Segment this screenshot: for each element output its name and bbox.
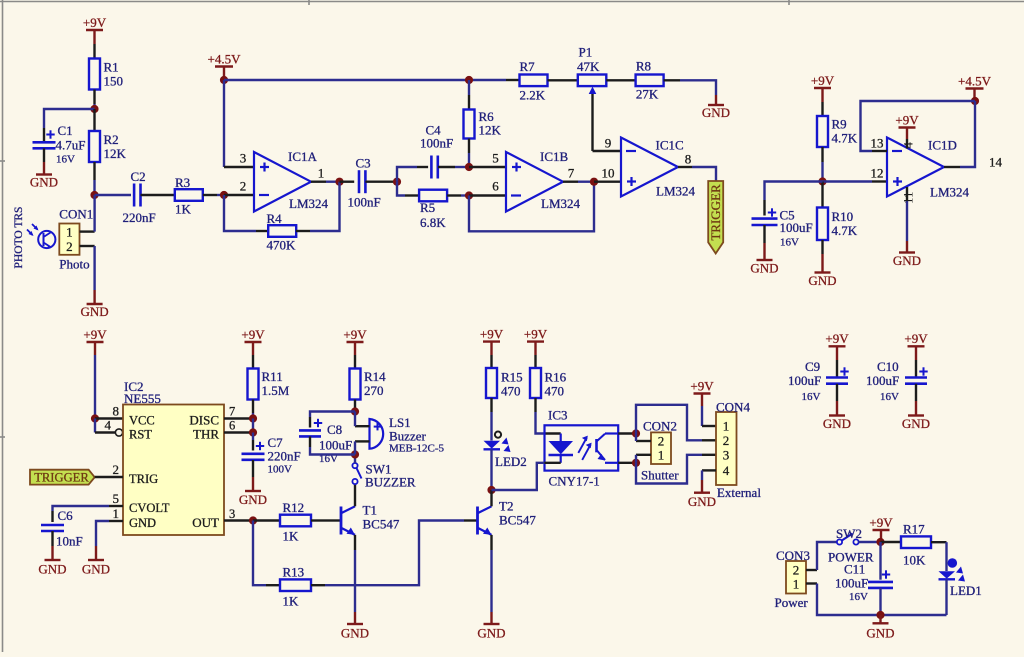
net flag TRIGGER (vertical) (708, 181, 723, 254)
svg-text:+9V: +9V (869, 515, 893, 530)
wire to IC1C pin10 (594, 180, 621, 182)
junction buzzer top node (351, 407, 359, 415)
resistor R3 (175, 175, 203, 217)
svg-text:16V: 16V (880, 391, 899, 403)
power +9V (R9) (811, 73, 835, 102)
connector CON3 (775, 548, 810, 610)
svg-text:BC547: BC547 (499, 513, 536, 528)
ground (C11) (866, 615, 894, 640)
svg-text:GND: GND (38, 562, 66, 577)
svg-text:6: 6 (229, 419, 235, 433)
wire node to R5 (397, 182, 419, 196)
wire output node to C3 (340, 180, 355, 182)
svg-text:1: 1 (318, 166, 325, 181)
svg-text:10: 10 (602, 166, 615, 181)
svg-text:GND: GND (341, 626, 369, 641)
svg-text:3: 3 (240, 151, 247, 166)
IC IC2 NE555 (105, 379, 236, 535)
svg-text:CNY17-1: CNY17-1 (549, 474, 600, 489)
svg-text:5: 5 (113, 491, 120, 506)
svg-text:6.8K: 6.8K (420, 215, 446, 230)
svg-text:1K: 1K (283, 529, 300, 544)
svg-text:NE555: NE555 (124, 391, 161, 406)
wire IC3 emitter out (618, 462, 636, 464)
svg-text:GND: GND (750, 261, 778, 276)
svg-text:C11: C11 (844, 562, 865, 577)
pin 4 IC1D (901, 139, 916, 149)
svg-text:4.7K: 4.7K (832, 223, 858, 238)
svg-text:220nF: 220nF (123, 210, 156, 225)
wire IC1B output (563, 180, 594, 182)
wire SW1 to buzzer node (354, 455, 356, 464)
wire R3 to node2 (203, 194, 224, 196)
wire C4 to node (438, 166, 469, 168)
power +9V (CON4) (690, 378, 714, 406)
svg-text:270: 270 (364, 383, 384, 398)
wire node to IC1D pin12 (823, 180, 888, 182)
svg-text:R8: R8 (636, 59, 651, 74)
svg-text:GND: GND (702, 105, 730, 120)
svg-text:GND: GND (808, 273, 836, 288)
svg-text:6: 6 (492, 179, 499, 194)
resistor R4 (267, 211, 297, 253)
svg-text:3: 3 (229, 507, 235, 521)
ground (T2) (477, 624, 505, 641)
svg-text:+9V: +9V (480, 326, 504, 341)
wire R1 to node (93, 90, 95, 110)
wire R12 to T1 base (311, 519, 340, 521)
svg-text:7: 7 (229, 405, 235, 419)
svg-text:R16: R16 (545, 370, 567, 385)
svg-text:Power: Power (775, 595, 809, 610)
svg-text:LM324: LM324 (930, 185, 970, 200)
svg-text:R4: R4 (267, 211, 283, 226)
pin 4 RST wire (95, 419, 123, 437)
junction opto emitter (632, 459, 640, 467)
pin 11 IC1D to GND (901, 187, 916, 253)
ground (C5) (750, 260, 778, 276)
power +9V (R11) (241, 327, 265, 355)
svg-text:+9V: +9V (690, 378, 714, 393)
ground (C7) (239, 491, 267, 507)
wire IC1B feedback loop (469, 182, 594, 232)
svg-text:T2: T2 (499, 499, 513, 514)
svg-text:C9: C9 (805, 359, 820, 374)
switch SW1 (352, 462, 415, 490)
resistor R7 (520, 59, 548, 103)
svg-text:4: 4 (723, 463, 730, 478)
svg-text:Buzzer: Buzzer (389, 429, 426, 444)
svg-text:100uF: 100uF (780, 220, 813, 235)
svg-text:R17: R17 (903, 522, 925, 537)
wire DISC to THR node (252, 419, 254, 433)
svg-text:GND: GND (82, 562, 110, 577)
svg-text:150: 150 (104, 74, 124, 89)
svg-text:RST: RST (129, 428, 152, 442)
svg-text:8: 8 (685, 152, 692, 167)
wire node to C8 top (310, 412, 355, 428)
ground (C6) (38, 560, 66, 577)
svg-text:11: 11 (901, 191, 916, 204)
wire node to R17 (881, 541, 902, 543)
svg-text:1: 1 (658, 448, 665, 463)
capacitor C10 (866, 359, 928, 403)
wire T2 collector (490, 490, 492, 506)
svg-text:+9V: +9V (825, 331, 849, 346)
wire node to C5 (765, 182, 823, 216)
svg-text:470: 470 (501, 384, 521, 399)
wire C2 to R3 (141, 194, 175, 196)
power +9V (C9) (825, 331, 849, 360)
connector CON1 (59, 206, 93, 271)
junction IC1B pin6 node (465, 191, 473, 199)
svg-text:7: 7 (568, 166, 575, 181)
svg-text:GND: GND (81, 304, 109, 319)
ground (R8) (702, 105, 730, 120)
svg-text:12: 12 (871, 166, 884, 181)
svg-text:Shutter: Shutter (641, 468, 679, 483)
op-amp IC1A (240, 149, 329, 211)
svg-text:4: 4 (901, 142, 916, 149)
svg-text:VCC: VCC (129, 414, 155, 428)
wire OUT to R12 (253, 519, 280, 521)
wire IC1D output (944, 101, 975, 167)
wire +9V to R16 (534, 355, 536, 368)
wire C7 to GND (252, 460, 254, 491)
wire R4 to output node (296, 182, 340, 231)
junction bottom rail / GND (876, 611, 884, 619)
svg-text:GND: GND (893, 253, 921, 268)
svg-text:R2: R2 (104, 132, 119, 147)
junction +4.5V rail (220, 76, 228, 84)
svg-text:LED1: LED1 (950, 583, 982, 598)
junction IC1A output (335, 178, 343, 186)
wire R14 to node (354, 400, 356, 412)
wire SW2 to +9V node (859, 541, 881, 543)
pin CON1-1 wire (80, 195, 95, 232)
svg-text:THR: THR (193, 427, 219, 442)
power +9V (R16) (524, 326, 548, 355)
svg-text:3: 3 (723, 448, 730, 463)
svg-text:1K: 1K (175, 202, 192, 217)
svg-text:+9V: +9V (895, 112, 919, 127)
svg-text:BC547: BC547 (363, 517, 400, 532)
op-amp IC1B (492, 149, 580, 211)
svg-text:IC1B: IC1B (540, 149, 569, 164)
junction +9V node (876, 538, 884, 546)
wire R15 to LED2 (490, 398, 492, 441)
wire R10 to GND (821, 240, 823, 273)
junction OUT node (249, 516, 257, 524)
svg-text:4.7uF: 4.7uF (56, 138, 86, 153)
svg-text:Photo: Photo (59, 257, 89, 272)
wire node to C1 (44, 109, 95, 142)
power +9V (IC1D pin4) (895, 112, 919, 139)
svg-text:100nF: 100nF (420, 136, 453, 151)
wire R6 to node (468, 139, 470, 168)
ground (C10) (902, 416, 930, 432)
pin 7 DISC wire (224, 417, 253, 419)
optocoupler IC3 CNY17-1 (545, 408, 619, 489)
junction C3 output node (393, 178, 401, 186)
wire LED2 to T2 collector node (490, 449, 492, 490)
wire +9V to R9 (821, 102, 823, 116)
wire R13 to T2 base (311, 521, 478, 586)
junction IC2 pin8 (91, 414, 99, 422)
junction THR node (249, 428, 257, 436)
capacitor C1 (33, 123, 86, 166)
resistor R9 (817, 116, 858, 147)
transistor T2 (478, 499, 537, 535)
LED LED1 (939, 558, 982, 598)
svg-text:C10: C10 (877, 359, 899, 374)
photo transistor symbol (27, 224, 55, 249)
svg-text:2: 2 (658, 434, 665, 449)
wire R7 to P1 (548, 79, 578, 81)
svg-text:OUT: OUT (192, 515, 219, 530)
svg-text:R13: R13 (283, 565, 305, 580)
pin 2 TRIG wire (95, 476, 123, 478)
wire rail to R7 (506, 79, 520, 81)
switch SW2 (828, 526, 874, 565)
svg-text:MEB-12C-5: MEB-12C-5 (389, 443, 445, 455)
svg-text:4.7K: 4.7K (832, 131, 858, 146)
wire T1 emitter to GND (354, 535, 356, 624)
svg-text:External: External (717, 485, 761, 500)
power +4.5V (left) (208, 51, 242, 80)
ground (CON4) (688, 493, 716, 510)
resistor R5 (419, 190, 447, 230)
svg-text:2: 2 (113, 462, 120, 477)
svg-text:IC3: IC3 (548, 408, 568, 423)
wire T1 collector to SW1 (354, 484, 356, 506)
power +4.5V (right) (958, 73, 992, 101)
svg-text:+9V: +9V (524, 326, 548, 341)
resistor R13 (280, 565, 311, 609)
wire node to R2 (93, 109, 95, 131)
wire +9V to IC2 pin8 (94, 355, 96, 419)
svg-text:C2: C2 (131, 169, 146, 184)
junction R9/R10/C5 (818, 177, 826, 185)
svg-text:LM324: LM324 (656, 184, 696, 199)
wire +4.5V rail (224, 79, 506, 81)
wire node to IC1B pin6 (469, 194, 506, 196)
pin 1 GND wire (96, 521, 123, 560)
capacitor C4 (420, 123, 453, 179)
pin CON3-2 wire to SW2 (806, 542, 837, 570)
power +9V (IC2) (83, 327, 107, 355)
svg-text:16V: 16V (802, 391, 821, 403)
wire R9 to node (821, 147, 823, 182)
svg-text:IC1A: IC1A (288, 149, 318, 164)
svg-text:TRIGGER: TRIGGER (708, 184, 723, 241)
svg-text:100nF: 100nF (348, 195, 381, 210)
wire T2 emitter to GND (490, 535, 492, 624)
ground (C1) (30, 175, 58, 190)
svg-text:+4.5V: +4.5V (208, 51, 242, 66)
ground (C9) (823, 416, 851, 432)
svg-text:1K: 1K (283, 594, 300, 609)
wire feedback to R4 (224, 195, 268, 231)
junction R1/R2/C1 (90, 105, 98, 113)
junction buzzer bottom node (351, 450, 359, 458)
svg-text:IC1D: IC1D (928, 138, 957, 153)
wire +9V node to C11 (879, 542, 881, 580)
wire IC1A output (311, 180, 340, 182)
svg-text:LM324: LM324 (289, 196, 329, 211)
capacitor C6 (41, 508, 83, 549)
svg-text:+9V: +9V (83, 327, 107, 342)
svg-text:470: 470 (545, 384, 565, 399)
svg-text:16V: 16V (780, 237, 799, 249)
capacitor C7 (242, 435, 301, 476)
wire IC1C output to flag (678, 167, 716, 181)
svg-text:2: 2 (66, 239, 73, 254)
wire IC3 collector out (618, 432, 636, 434)
svg-text:LED2: LED2 (495, 454, 527, 469)
svg-text:27K: 27K (636, 87, 659, 102)
junction rail/R6 (465, 76, 473, 84)
svg-text:4: 4 (105, 418, 112, 433)
buzzer LS1 (355, 412, 445, 455)
power +9V (SW2) (869, 515, 893, 542)
pin 5 CVOLT wire to C6 (53, 506, 124, 522)
wire R16 to IC3 anode (536, 398, 561, 434)
connector CON2 (641, 419, 679, 483)
svg-text:CON4: CON4 (716, 400, 750, 415)
svg-text:100uF: 100uF (319, 438, 352, 453)
capacitor C11 (835, 562, 893, 604)
svg-text:R11: R11 (262, 369, 283, 384)
svg-text:PHOTO TRS: PHOTO TRS (13, 207, 25, 269)
wire node to C2 (95, 194, 132, 196)
pin CON1-2 wire to GND (80, 246, 95, 304)
ground (CON1) (81, 304, 109, 319)
svg-text:LM324: LM324 (541, 196, 581, 211)
svg-text:R15: R15 (501, 370, 523, 385)
wire opto emitter to CON4 pin3 (636, 455, 716, 484)
svg-text:+9V: +9V (83, 15, 107, 30)
wire R17 to LED1 (931, 542, 947, 558)
svg-text:100uF: 100uF (835, 576, 868, 591)
svg-text:13: 13 (871, 136, 884, 151)
svg-text:14: 14 (989, 155, 1003, 170)
wire C6 to GND (51, 531, 53, 560)
svg-text:220nF: 220nF (268, 449, 301, 464)
junction IC1B pin5 node (465, 163, 473, 171)
svg-text:C6: C6 (58, 508, 74, 523)
capacitor C8 (299, 419, 352, 465)
wire R2 to node (93, 162, 95, 195)
op-amp IC1D (871, 136, 1003, 200)
wire +9V to R11 (252, 355, 254, 369)
svg-text:IC1C: IC1C (656, 138, 684, 153)
svg-text:1: 1 (723, 419, 730, 434)
svg-text:TRIGGER: TRIGGER (34, 471, 89, 485)
svg-text:SW2: SW2 (836, 526, 862, 541)
junction DISC node (249, 414, 257, 422)
ground (IC1D) (893, 253, 921, 269)
wire C10 to GND (915, 384, 917, 416)
resistor R15 (486, 368, 523, 399)
svg-text:8: 8 (113, 404, 120, 419)
power +9V (R1) (83, 15, 107, 44)
svg-text:GND: GND (902, 416, 930, 431)
svg-text:10nF: 10nF (56, 534, 83, 549)
svg-text:C8: C8 (327, 422, 342, 437)
resistor R11 (248, 369, 290, 400)
wire R8 to GND (664, 80, 716, 105)
power +9V (C10) (904, 331, 928, 360)
svg-text:+9V: +9V (904, 331, 928, 346)
net flag TRIGGER (horizontal) (30, 470, 95, 485)
potentiometer P1 (577, 45, 606, 95)
svg-text:10K: 10K (903, 553, 926, 568)
wire +9V to R14 (354, 355, 356, 369)
resistor R8 (636, 59, 664, 102)
pin CON2-2 wire (636, 434, 651, 442)
capacitor C2 (123, 169, 156, 225)
wire C3 to node (365, 180, 397, 182)
power +9V (R14) (343, 327, 367, 355)
svg-text:GND: GND (866, 625, 894, 640)
svg-text:1: 1 (66, 225, 73, 240)
svg-text:12K: 12K (104, 146, 127, 161)
junction opto collector (632, 429, 640, 437)
resistor R17 (901, 522, 931, 568)
svg-text:TRIG: TRIG (129, 472, 158, 486)
wire C8 bottom to node (310, 436, 355, 454)
svg-text:GND: GND (129, 516, 156, 530)
svg-text:GND: GND (477, 626, 505, 641)
wire R5 to node (447, 194, 469, 196)
junction op-amp inverting node (220, 191, 228, 199)
svg-text:CON2: CON2 (643, 419, 677, 434)
resistor R16 (530, 368, 567, 399)
resistor R1 (89, 59, 123, 90)
svg-text:16V: 16V (56, 154, 75, 166)
ground (R10) (808, 273, 836, 289)
wire node to IC1B pin5 (469, 166, 506, 168)
svg-text:R12: R12 (283, 500, 305, 515)
svg-text:BUZZER: BUZZER (365, 475, 416, 490)
pin 3 OUT wire (224, 519, 253, 521)
svg-text:+4.5V: +4.5V (958, 73, 992, 88)
op-amp IC1C (602, 136, 696, 199)
svg-text:1: 1 (113, 506, 120, 521)
wire P1 to R8 (606, 79, 635, 81)
svg-text:R5: R5 (420, 200, 435, 215)
wire node2 to IC1A pin2 (224, 194, 254, 196)
svg-text:470K: 470K (267, 238, 297, 253)
wire P1 wiper to IC1C pin9 (593, 94, 622, 151)
svg-text:R1: R1 (104, 60, 119, 75)
svg-text:GND: GND (688, 494, 716, 509)
junction R2/C2/CON1 (90, 191, 98, 199)
wire node to C4 (397, 167, 428, 182)
svg-text:5: 5 (492, 151, 499, 166)
wire IC1D feedback (861, 101, 976, 151)
connector CON4 (716, 400, 761, 501)
wire C5 to GND (763, 225, 765, 260)
wire rail junction to R6 (468, 80, 470, 110)
wire THR node to C7 (252, 433, 254, 451)
svg-text:+9V: +9V (811, 73, 835, 88)
transistor T1 (341, 503, 400, 535)
wire C1 to GND (43, 148, 45, 174)
pin 8 VCC wire (95, 417, 123, 419)
svg-text:C3: C3 (356, 156, 371, 171)
